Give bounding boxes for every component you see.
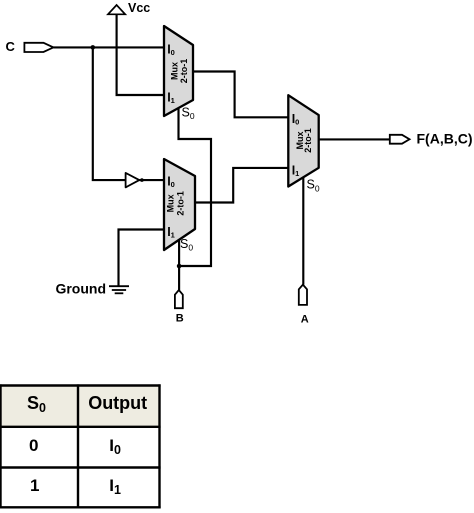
svg-text:S0: S0 (182, 105, 195, 121)
svg-text:2-to-1: 2-to-1 (303, 128, 313, 153)
svg-text:Mux: Mux (169, 62, 179, 80)
svg-text:F(A,B,C): F(A,B,C) (417, 131, 473, 147)
svg-text:Ground: Ground (55, 280, 106, 296)
svg-text:B: B (176, 313, 184, 325)
svg-text:S0: S0 (307, 178, 320, 194)
svg-text:Mux: Mux (166, 194, 176, 212)
svg-text:S0: S0 (180, 237, 193, 253)
svg-text:Vcc: Vcc (128, 1, 150, 15)
svg-text:Output: Output (88, 393, 147, 413)
svg-text:1: 1 (30, 476, 39, 495)
svg-text:0: 0 (29, 436, 38, 455)
svg-text:I1: I1 (109, 476, 121, 497)
svg-text:A: A (301, 313, 309, 325)
svg-text:2-to-1: 2-to-1 (179, 59, 189, 84)
svg-text:C: C (6, 39, 16, 54)
svg-text:2-to-1: 2-to-1 (175, 191, 185, 216)
svg-text:I0: I0 (109, 436, 121, 457)
